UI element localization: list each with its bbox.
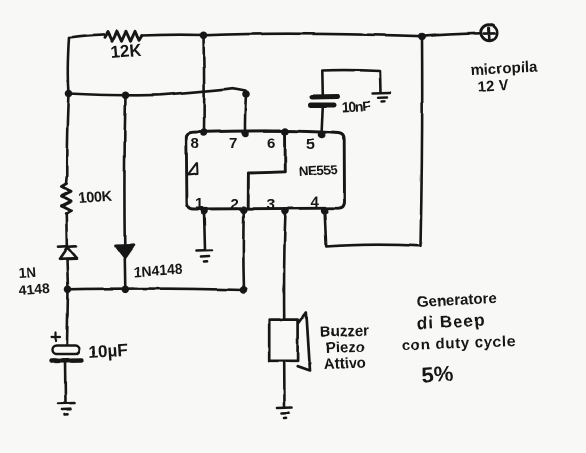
- resistor R2 100K: [62, 184, 72, 214]
- node pin2 bottom junction: [240, 286, 248, 294]
- svg-text:2: 2: [230, 196, 238, 213]
- svg-text:4148: 4148: [18, 280, 50, 298]
- svg-text:Generatore: Generatore: [416, 290, 497, 311]
- wire left vertical upper: [68, 38, 69, 94]
- pin 5 node: [318, 131, 326, 139]
- pin 1 node: [200, 207, 208, 215]
- wire pin3 to buzzer: [284, 211, 285, 319]
- capacitor C1 10nF: [311, 97, 338, 106]
- capacitor C2 10uF bottom plate: [52, 358, 82, 363]
- pin 7 node: [241, 130, 249, 138]
- wire C1 to pin5: [322, 106, 323, 136]
- pin 4 node: [321, 207, 329, 215]
- svg-text:micropila: micropila: [470, 58, 538, 79]
- wire top rail left segment: [69, 34, 104, 37]
- wire to battery terminal: [422, 33, 479, 36]
- svg-text:7: 7: [229, 135, 237, 152]
- wire buzzer to ground: [283, 363, 286, 408]
- diode D2 1N4148: [116, 245, 135, 258]
- wire pin7 drop: [245, 94, 246, 133]
- ground C2: [58, 403, 75, 415]
- svg-text:4: 4: [311, 194, 320, 211]
- wire D2 vertical: [124, 95, 125, 246]
- svg-text:100K: 100K: [78, 189, 113, 207]
- wire pin8 drop: [202, 35, 205, 132]
- wire C2 to ground: [64, 361, 67, 403]
- svg-text:Attivo: Attivo: [324, 355, 367, 373]
- node top-B junction: [418, 33, 426, 41]
- buzzer BZ1 piezo: [269, 312, 310, 371]
- wire bottom rail: [68, 289, 244, 290]
- svg-text:5%: 5%: [421, 361, 454, 388]
- U1 pin1 notch: [188, 163, 198, 175]
- svg-text:8: 8: [191, 135, 199, 152]
- svg-text:NE555: NE555: [298, 162, 338, 179]
- ground pin1: [197, 250, 213, 262]
- battery terminal circle +: [481, 25, 497, 41]
- wire left vertical to resistor: [66, 94, 69, 185]
- svg-text:10µF: 10µF: [88, 340, 128, 362]
- svg-text:6: 6: [267, 135, 275, 152]
- svg-text:di Beep: di Beep: [416, 310, 486, 333]
- node bottom-mid junction: [122, 286, 130, 294]
- wire D2 to bottom rail: [124, 259, 127, 290]
- svg-text:3: 3: [267, 196, 275, 213]
- svg-text:1N4148: 1N4148: [133, 261, 183, 280]
- pin 2 node: [240, 206, 248, 214]
- pin 8 node: [200, 129, 208, 137]
- svg-text:12 V: 12 V: [477, 77, 509, 96]
- node pin7 top junction: [242, 90, 250, 98]
- wire node to C2: [67, 289, 68, 345]
- ground C1: [373, 93, 391, 102]
- svg-text:10nF: 10nF: [341, 97, 371, 115]
- svg-text:con duty cycle: con duty cycle: [402, 333, 517, 354]
- node top-A junction: [200, 32, 208, 40]
- wire second rail horizontal: [69, 88, 247, 95]
- node left junction: [65, 90, 73, 98]
- svg-text:12K: 12K: [110, 40, 143, 62]
- svg-text:1N: 1N: [18, 264, 37, 281]
- diode D1 1N4148: [58, 246, 77, 258]
- pin 3 node: [282, 207, 290, 215]
- capacitor C2 10uF top plate: [53, 346, 80, 355]
- wire top rail right segment: [204, 34, 423, 37]
- wire C1 top loop to ground: [322, 70, 381, 96]
- pin 6 node: [281, 128, 289, 136]
- resistor R1 12K: [105, 31, 142, 41]
- wire top rail middle segment: [142, 33, 204, 36]
- capacitor C2 10uF plus sign: [52, 333, 61, 341]
- wire pin2 rise: [242, 210, 245, 290]
- op-amp U1 NE555 body: [186, 131, 344, 209]
- wire pin1 to ground: [204, 211, 205, 250]
- node bottom-left junction: [64, 286, 72, 294]
- wire R2 to D1: [65, 214, 68, 247]
- wire D1 to bottom node: [67, 259, 68, 290]
- wire pin4 to V+: [325, 37, 423, 247]
- ground buzzer: [278, 408, 293, 419]
- node D2 top junction: [122, 92, 130, 100]
- svg-text:5: 5: [306, 136, 314, 153]
